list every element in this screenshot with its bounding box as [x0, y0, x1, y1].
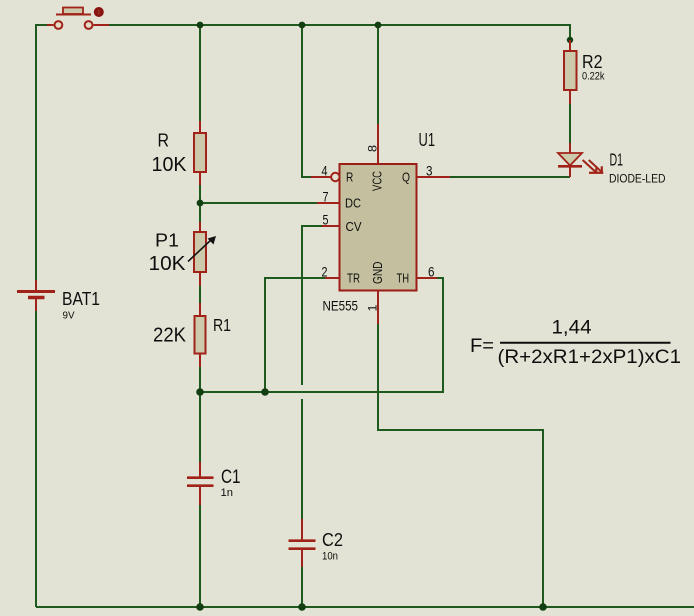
resistor R	[194, 121, 206, 185]
pin 8 VCC	[377, 124, 379, 164]
pin 2 TR	[325, 277, 340, 279]
junction node: TR tap on y392 wire	[261, 388, 269, 396]
wire: R1 bottom to node at y392	[199, 367, 201, 392]
svg-text:1: 1	[368, 305, 380, 312]
op-amp/IC U1 NE555 body	[340, 164, 417, 291]
wire: R2 bottom to LED anode	[569, 104, 571, 143]
wire: left rail bottom (battery to ground rail)	[35, 311, 37, 607]
svg-text:(R+2xR1+2xP1)xC1: (R+2xR1+2xP1)xC1	[498, 347, 682, 368]
wire: VCC pin8 up to top rail	[377, 25, 379, 124]
svg-text:VCC: VCC	[370, 171, 385, 191]
junction node: C2 / ground rail	[298, 603, 306, 611]
battery BAT1	[17, 280, 55, 311]
svg-text:1,44: 1,44	[552, 318, 592, 339]
pin 6 TH	[417, 277, 438, 279]
wire: vertical drop to R	[199, 25, 201, 121]
wire: CV pin5 to C2 upper	[302, 226, 322, 385]
svg-text:9V: 9V	[63, 310, 75, 322]
svg-text:10n: 10n	[322, 551, 338, 563]
svg-text:C2: C2	[322, 529, 343, 550]
wire: Q pin3 to LED cathode	[450, 176, 570, 178]
svg-text:U1: U1	[419, 130, 436, 150]
resistor R2	[564, 40, 577, 104]
svg-text:D1: D1	[610, 150, 624, 170]
wire: horizontal node wire y392 and up to TH	[200, 278, 443, 392]
pin 7 DC	[317, 202, 340, 204]
junction node: top rail / x302 column	[299, 22, 306, 29]
junction node: above R2	[567, 37, 573, 43]
svg-text:R2: R2	[582, 52, 603, 72]
wire: vertical drop x302 to pin4	[302, 25, 311, 177]
wire: CV/C2 vertical below crossing gap	[301, 399, 303, 519]
resistor R1	[195, 303, 206, 367]
wire: DC pin7 to R/P1 node	[200, 202, 317, 204]
pin 1 GND	[377, 291, 379, 325]
formula fraction bar	[500, 342, 671, 344]
junction node: GND drop / ground rail	[539, 603, 547, 611]
svg-text:0.22k: 0.22k	[582, 71, 605, 83]
svg-text:R1: R1	[213, 315, 231, 335]
svg-text:TH: TH	[397, 272, 410, 286]
svg-text:4: 4	[322, 164, 328, 179]
pin 5 CV	[322, 225, 340, 227]
capacitor C2	[289, 519, 316, 567]
junction node: R1 bottom node	[196, 388, 204, 396]
pin 4 R (reset, with bubble)	[311, 173, 339, 181]
wire: left rail top (button to battery)	[36, 25, 47, 280]
wire: top supply rail	[109, 25, 570, 39]
svg-text:10K: 10K	[152, 154, 188, 176]
svg-text:Q: Q	[402, 170, 410, 184]
svg-text:CV: CV	[346, 220, 363, 234]
potentiometer P1	[188, 222, 216, 286]
svg-text:R: R	[158, 131, 170, 151]
svg-text:F=: F=	[470, 336, 494, 357]
wire: node y392 down to C1	[199, 392, 201, 462]
svg-text:1n: 1n	[221, 487, 234, 499]
svg-text:3: 3	[426, 164, 433, 179]
svg-text:6: 6	[428, 265, 435, 280]
svg-text:TR: TR	[347, 272, 360, 286]
junction node: C1 / ground rail	[196, 603, 204, 611]
LED D1	[558, 143, 603, 177]
pin 3 Q output	[417, 176, 451, 178]
junction node: top rail / VCC pin8	[375, 22, 382, 29]
wire: P1 bottom to R1 top	[199, 286, 201, 303]
svg-text:5: 5	[323, 213, 329, 228]
push button SW	[47, 7, 109, 29]
svg-text:R: R	[346, 170, 353, 184]
svg-text:P1: P1	[155, 231, 179, 251]
svg-text:8: 8	[368, 145, 380, 152]
wire: bottom ground rail	[36, 606, 694, 608]
svg-text:DC: DC	[345, 197, 361, 211]
svg-text:GND: GND	[370, 262, 385, 285]
junction node: top rail / R column	[197, 22, 204, 29]
wire: C1 bottom to ground rail	[199, 505, 201, 607]
svg-text:DIODE-LED: DIODE-LED	[609, 171, 666, 185]
svg-text:22K: 22K	[153, 325, 187, 347]
wire: GND pin1 to ground rail	[378, 324, 543, 607]
svg-text:7: 7	[323, 190, 329, 205]
svg-text:10K: 10K	[149, 253, 187, 275]
svg-text:C1: C1	[221, 467, 241, 488]
junction node: R/P1/DC	[197, 200, 204, 207]
wire: C2 bottom to ground rail	[301, 567, 303, 607]
svg-text:NE555: NE555	[323, 297, 359, 313]
wire: R bottom to P1 top	[199, 185, 201, 222]
wire: TR pin2 to node	[265, 278, 325, 392]
svg-text:2: 2	[322, 265, 328, 280]
capacitor C1	[187, 462, 214, 505]
svg-text:BAT1: BAT1	[62, 289, 100, 309]
